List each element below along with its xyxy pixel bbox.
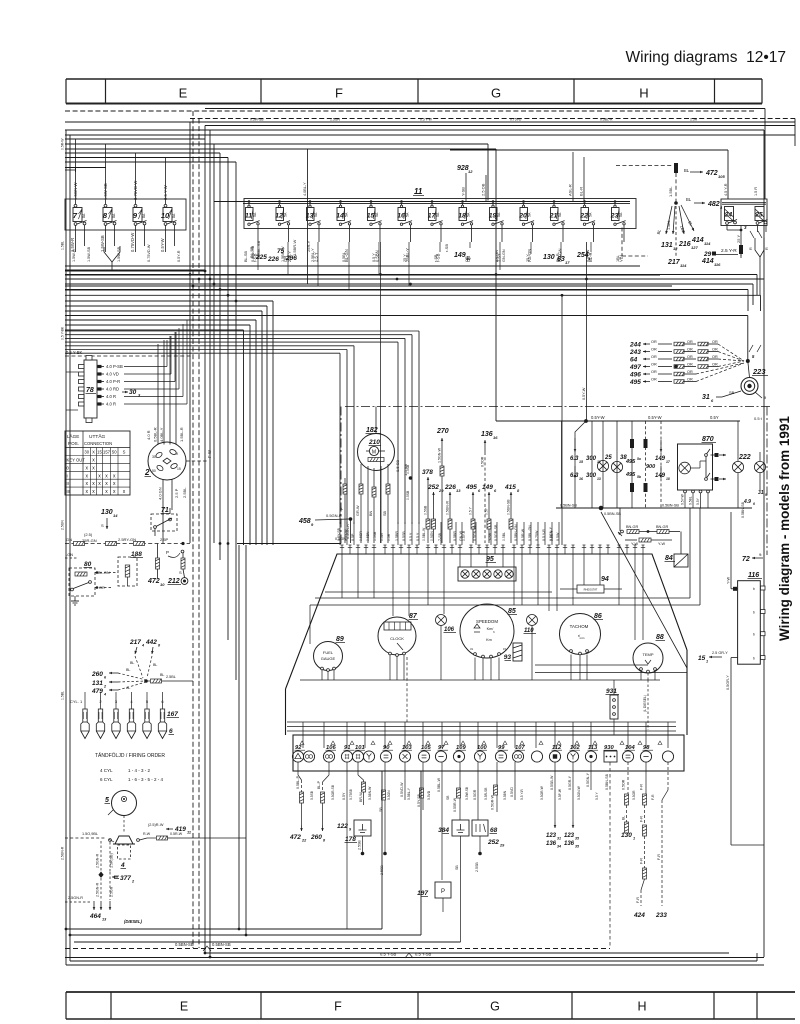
ignition coil 4 cap	[115, 836, 133, 844]
wire vertical x246 long	[245, 545, 247, 935]
svg-text:4.0 R: 4.0 R	[146, 430, 151, 440]
svg-text:1.5BL: 1.5BL	[61, 691, 65, 700]
chain boundary vertical x341	[340, 407, 342, 546]
svg-text:212: 212	[167, 578, 180, 585]
distributor 5	[112, 791, 137, 816]
116 bottom-left pin with 15-1 callout	[731, 657, 738, 659]
svg-text:14: 14	[113, 513, 118, 518]
svg-text:0.5VD-W: 0.5VD-W	[400, 782, 404, 797]
wire mid bus y284	[65, 283, 753, 285]
lamp box 870	[678, 444, 713, 490]
svg-text:5A: 5A	[558, 212, 562, 217]
connector 78 body	[84, 360, 97, 418]
svg-text:F: F	[334, 1000, 342, 1014]
svg-text:88: 88	[656, 634, 664, 641]
wire from 78 pin 6	[124, 403, 187, 405]
svg-text:0.5Y-SB: 0.5Y-SB	[337, 527, 341, 541]
svg-text:SPEEDOM: SPEEDOM	[476, 619, 498, 624]
wire long vertical x214	[213, 144, 215, 543]
svg-text:31: 31	[702, 394, 710, 401]
wire stub left of 78	[66, 371, 78, 373]
wires below 870	[684, 490, 687, 493]
svg-text:15: 15	[698, 655, 706, 662]
svg-text:CYL. 1: CYL. 1	[70, 699, 83, 704]
svg-text:4.0 P-SB: 4.0 P-SB	[106, 364, 123, 369]
clock pin wires	[360, 464, 362, 543]
svg-text:233: 233	[655, 912, 667, 919]
wire below fuse 21	[562, 230, 564, 242]
wire drop x764 right border	[763, 130, 765, 957]
Y-W lower link	[625, 539, 637, 541]
dashed stub -GN	[65, 557, 78, 559]
svg-text:0.5BN-GN: 0.5BN-GN	[514, 524, 518, 541]
svg-text:KEY OUT: KEY OUT	[67, 458, 86, 463]
junction diamond 377	[98, 872, 103, 878]
svg-text:BL: BL	[684, 168, 690, 173]
fuse block frame (fuses 7-10)	[65, 199, 186, 230]
connector pin 104	[622, 745, 635, 762]
svg-text:G: G	[490, 1000, 500, 1014]
svg-text:0.5P: 0.5P	[351, 533, 355, 541]
svg-text:OR: OR	[651, 370, 657, 374]
svg-text:BL-R: BL-R	[556, 253, 560, 262]
svg-text:(2.5)R-W: (2.5)R-W	[148, 823, 164, 827]
wires below 377 junction	[100, 878, 102, 900]
svg-text:188: 188	[131, 551, 142, 558]
svg-text:424: 424	[633, 912, 645, 919]
wire right drops from mid bus	[756, 275, 758, 296]
fuse column 900	[645, 421, 647, 508]
wire from coil line up x193	[192, 680, 194, 682]
tachometer wires	[570, 655, 572, 681]
svg-text:F-R: F-R	[640, 858, 644, 864]
wire mid bus y320	[65, 319, 256, 321]
fuse 21	[549, 200, 565, 230]
svg-text:11: 11	[414, 187, 423, 196]
wire below fuse 19	[501, 230, 503, 242]
wire return y942	[74, 941, 461, 943]
wire bus y130	[65, 129, 764, 131]
wire long dashed vertical x199	[198, 119, 200, 949]
wire below fuse 15	[379, 230, 381, 242]
ignition coil 4 body	[118, 845, 131, 859]
fuse strip frame (fuses 11-23)	[244, 199, 636, 229]
lamp field top bus 0.5Y-W	[556, 420, 740, 422]
svg-text:OR: OR	[651, 355, 657, 359]
wire long vertical x220	[219, 153, 221, 560]
wire y543 cluster feed	[237, 543, 341, 545]
wire drop 109 to 384	[459, 762, 461, 820]
svg-text:0.5BL-GN: 0.5BL-GN	[528, 525, 532, 541]
svg-text:III: III	[67, 489, 71, 494]
svg-text:243: 243	[629, 349, 641, 356]
svg-text:0.5P-W: 0.5P-W	[558, 788, 562, 800]
svg-text:252: 252	[487, 839, 499, 846]
svg-text:0.5W-SB: 0.5W-SB	[465, 786, 469, 800]
wire return y929	[66, 928, 382, 930]
svg-text:GN: GN	[66, 537, 72, 542]
svg-text:AL: AL	[126, 686, 130, 690]
wire drop 106 to 260-8	[328, 762, 330, 775]
svg-text:414: 414	[691, 237, 704, 244]
svg-text:OR: OR	[687, 340, 693, 344]
svg-text:31: 31	[758, 490, 764, 496]
wire below fuse 9	[135, 230, 137, 252]
svg-text:464: 464	[89, 913, 101, 920]
svg-text:270: 270	[436, 428, 449, 435]
svg-text:15: 15	[97, 450, 102, 455]
svg-text:1.5W-SB: 1.5W-SB	[87, 246, 91, 262]
bottom grid band	[66, 992, 795, 1019]
svg-text:2.5GN-R: 2.5GN-R	[68, 896, 83, 900]
svg-text:17: 17	[565, 260, 570, 265]
svg-text:377: 377	[120, 875, 131, 882]
svg-text:5b: 5b	[637, 475, 641, 479]
svg-text:0.5R-W: 0.5R-W	[521, 528, 525, 541]
dashed drop 217	[675, 206, 677, 256]
connector pin blank	[662, 751, 673, 762]
svg-text:0.5W: 0.5W	[380, 532, 384, 541]
svg-text:BN-GR: BN-GR	[656, 525, 668, 529]
wire x676 to junction	[675, 173, 677, 202]
svg-text:12: 12	[468, 169, 473, 174]
wire 0.5Y-W from fuse 22 to lamp bus	[586, 242, 588, 421]
svg-text:BL: BL	[126, 668, 130, 672]
svg-text:2.5BL-Y: 2.5BL-Y	[311, 248, 315, 262]
dashed control bus y543	[65, 543, 190, 545]
svg-text:POS.: POS.	[68, 441, 79, 446]
wire drop 99	[496, 762, 498, 812]
connector pin 109	[453, 745, 466, 762]
svg-text:TÄNDFÖLJD / FIRING ORDER: TÄNDFÖLJD / FIRING ORDER	[95, 752, 165, 759]
chain boundary line y406	[345, 406, 770, 408]
svg-text:0.5 SB: 0.5 SB	[395, 460, 400, 472]
fuse on coil feed	[146, 680, 150, 682]
svg-text:b: b	[753, 657, 755, 661]
svg-text:482: 482	[707, 201, 720, 208]
wire from x496 to lamp bus	[496, 420, 556, 422]
coil terminals	[109, 839, 112, 842]
svg-text:0.5 Y-BK: 0.5 Y-BK	[61, 326, 65, 340]
bus bar inside relay box	[722, 202, 766, 204]
cluster top pins	[340, 545, 344, 554]
wire drop 102 to 123-136 b	[572, 762, 574, 822]
svg-text:1.5SB: 1.5SB	[373, 531, 377, 541]
svg-text:0.5Y: 0.5Y	[696, 497, 700, 505]
svg-text:217: 217	[129, 639, 141, 646]
svg-text:0.5OR: 0.5OR	[632, 790, 636, 800]
wire riser x421	[420, 771, 422, 935]
svg-text:1.5O,9BL: 1.5O,9BL	[82, 832, 98, 836]
svg-text:0.5Y: 0.5Y	[710, 415, 719, 420]
wire below fuse 23	[623, 230, 625, 242]
svg-text:0.5BN: 0.5BN	[366, 531, 370, 541]
cluster lower rail y665	[535, 664, 648, 666]
svg-text:b: b	[753, 633, 755, 637]
fuse 19	[489, 200, 504, 230]
wire below fuse 14	[349, 230, 351, 242]
arrow 30-3 callout	[122, 391, 128, 393]
svg-text:9:: 9:	[759, 552, 762, 557]
wire splice funnel below fuse 8	[104, 246, 120, 262]
lamp column 6.3	[575, 421, 586, 508]
connector 78 pin 1	[79, 365, 85, 369]
svg-text:1.5BL: 1.5BL	[667, 220, 671, 230]
fuse 22	[579, 200, 595, 230]
svg-text:5A: 5A	[345, 212, 349, 217]
svg-text:BL-P: BL-P	[317, 780, 321, 789]
svg-text:5A: 5A	[497, 212, 501, 217]
svg-text:LÄGE: LÄGE	[67, 433, 79, 439]
fuse 9	[133, 199, 147, 230]
svg-text:2.5 OB: 2.5 OB	[481, 183, 486, 196]
svg-text:BR-W: BR-W	[359, 792, 363, 802]
junction dot 223	[746, 359, 750, 363]
svg-text:2.5GN: 2.5GN	[61, 520, 65, 530]
cluster lower rail y722	[287, 721, 676, 723]
svg-text:0.5GN-W: 0.5GN-W	[577, 785, 581, 800]
svg-text:384: 384	[438, 827, 449, 834]
svg-text:497: 497	[629, 364, 641, 371]
svg-text:0.5 Y-W: 0.5 Y-W	[420, 118, 433, 122]
svg-text:P: P	[441, 889, 445, 895]
svg-text:197: 197	[417, 890, 428, 897]
wire corner to right border	[731, 844, 764, 846]
wire return y953	[205, 952, 729, 954]
svg-text:CONNECTION: CONNECTION	[84, 441, 112, 446]
svg-text:4.5 Y-R: 4.5 Y-R	[724, 183, 728, 196]
svg-text:1.5GN-W: 1.5GN-W	[438, 447, 442, 463]
870 switch pins	[705, 454, 708, 457]
svg-text:Y-W: Y-W	[658, 542, 665, 546]
clock resistor bar	[368, 458, 384, 462]
svg-text:0.5BL-R: 0.5BL-R	[600, 118, 613, 122]
svg-text:0.5R: 0.5R	[387, 533, 391, 541]
fuse 12	[275, 200, 290, 230]
wire below fuse 12	[288, 230, 290, 242]
wires below relay box	[726, 226, 728, 231]
instrument cluster outline	[286, 554, 688, 689]
svg-text:BL: BL	[686, 197, 692, 202]
svg-text:0.5 Y: 0.5 Y	[409, 532, 413, 541]
coil down wires dashed	[100, 841, 102, 872]
svg-text:0.5R-W: 0.5R-W	[170, 832, 183, 836]
svg-text:0.5Y-W: 0.5Y-W	[160, 238, 165, 252]
svg-text:72: 72	[742, 556, 750, 563]
connector pin 91	[341, 745, 354, 762]
svg-text:BL: BL	[153, 663, 157, 667]
svg-text:222: 222	[738, 454, 751, 461]
wire drop 105	[422, 762, 424, 810]
svg-text:114: 114	[680, 263, 687, 268]
svg-text:1.5BR-W: 1.5BR-W	[292, 240, 297, 256]
connector row top tick marks	[300, 741, 304, 744]
svg-text:0.5BN: 0.5BN	[503, 790, 507, 800]
wire drop x562 to cluster	[561, 295, 563, 545]
svg-text:2.5 P: 2.5 P	[174, 488, 179, 498]
svg-text:136: 136	[564, 841, 575, 847]
junction dot on 497 wire	[674, 365, 678, 369]
svg-text:0.5Y: 0.5Y	[342, 792, 346, 800]
dashed drop below clock	[406, 657, 408, 722]
wire bus y122	[65, 121, 795, 123]
wire from 78 pin 1	[124, 366, 167, 368]
svg-text:0.5Y-W: 0.5Y-W	[681, 493, 685, 505]
svg-text:BL: BL	[622, 816, 626, 820]
svg-text:30: 30	[152, 455, 156, 459]
svg-text:X: X	[92, 450, 95, 455]
wire drop 98 fuse chain to 424	[645, 762, 647, 794]
svg-text:OR: OR	[651, 340, 657, 344]
wire feed above fuse 9	[135, 153, 137, 199]
cluster lower rail y726	[287, 726, 676, 728]
svg-text:0.5OR: 0.5OR	[481, 456, 485, 467]
svg-text:217: 217	[667, 259, 681, 266]
svg-text:M: M	[372, 450, 376, 456]
svg-text:5: 5	[105, 797, 109, 804]
svg-text:5A: 5A	[436, 212, 440, 217]
svg-text:OR: OR	[687, 348, 693, 352]
wire below fuse 11	[257, 230, 259, 242]
svg-text:5A: 5A	[589, 212, 593, 217]
lamp 110 in cluster	[527, 615, 538, 626]
116 pin	[761, 586, 766, 590]
wire bus y139	[65, 138, 205, 140]
svg-text:0.5GR: 0.5GR	[359, 531, 363, 541]
wire labels above fuses 21-22	[572, 152, 574, 201]
svg-text:9: 9	[765, 493, 767, 497]
svg-text:5A: 5A	[406, 212, 410, 217]
svg-text:2.5BL: 2.5BL	[166, 675, 176, 679]
svg-text:414: 414	[701, 258, 714, 265]
cluster internal rail y605	[310, 604, 700, 606]
wire riser x757 bottom	[756, 953, 758, 961]
BN-GR link resistors	[619, 508, 621, 531]
coil feed junction	[144, 679, 148, 683]
wire mid bus y315 to connector 223	[65, 315, 748, 317]
svg-text:5A: 5A	[467, 212, 471, 217]
svg-text:1.5BL: 1.5BL	[61, 241, 65, 250]
svg-text:300: 300	[586, 456, 597, 462]
wire vertical x239 long	[238, 545, 240, 929]
top grid band	[66, 79, 762, 104]
svg-text:2.5BL: 2.5BL	[182, 487, 187, 498]
svg-text:5a: 5a	[637, 457, 641, 461]
svg-text:29: 29	[703, 251, 712, 258]
svg-text:93: 93	[504, 654, 512, 661]
svg-text:BL: BL	[130, 661, 134, 665]
wire return y935	[70, 934, 421, 936]
svg-text:105: 105	[718, 174, 725, 179]
spark plug 2	[96, 692, 104, 739]
wire long vertical x66 left border	[65, 130, 67, 965]
svg-text:0.5Y-W: 0.5Y-W	[582, 387, 586, 400]
junction dot big on bottom bus	[599, 506, 604, 511]
fuse 13	[306, 200, 321, 230]
cluster internal rail y598	[315, 597, 690, 599]
wire below fuse 7	[75, 230, 77, 252]
junction terminals at x183	[181, 542, 184, 545]
svg-text:931: 931	[606, 688, 617, 695]
svg-text:13: 13	[456, 488, 461, 493]
svg-text:1: 1	[633, 837, 635, 841]
svg-text:0.5W-SB: 0.5W-SB	[250, 118, 264, 122]
connector pin 106	[323, 745, 336, 762]
svg-text:2: 2	[144, 468, 150, 477]
svg-text:300: 300	[586, 473, 597, 479]
wire staircase verticals middle	[272, 301, 274, 545]
wire 4.0BL-Y vertical	[307, 149, 309, 284]
wire below fuse 17	[440, 230, 442, 242]
relay fuse 25	[754, 207, 767, 225]
svg-text:30: 30	[84, 450, 89, 455]
svg-text:244: 244	[629, 342, 641, 349]
clock motor symbol	[369, 446, 378, 455]
svg-text:OR: OR	[712, 340, 718, 344]
connector pin 101	[352, 745, 365, 762]
svg-text:0.5GR-SB: 0.5GR-SB	[331, 784, 335, 800]
svg-text:0.5Y-SB: 0.5Y-SB	[417, 793, 421, 807]
svg-text:0.5R-SB: 0.5R-SB	[484, 787, 488, 800]
cluster right side wall	[686, 650, 688, 735]
svg-text:OR: OR	[687, 370, 693, 374]
svg-text:(2.5): (2.5)	[84, 532, 93, 537]
svg-text:2.5SB: 2.5SB	[358, 840, 362, 850]
svg-text:114: 114	[704, 241, 711, 246]
wire below fuse 13	[318, 230, 320, 242]
svg-text:OR: OR	[712, 363, 718, 367]
116 left pin Y-W	[731, 588, 738, 590]
svg-text:0.75VD-W: 0.75VD-W	[147, 244, 151, 262]
svg-text:0.5BN-SB: 0.5BN-SB	[662, 504, 679, 508]
svg-text:G: G	[491, 86, 501, 101]
svg-text:458: 458	[298, 518, 311, 525]
junction dots on buses	[204, 270, 207, 273]
wire drop 90 long to dot	[384, 762, 386, 852]
svg-text:1.5W-SB: 1.5W-SB	[117, 246, 121, 262]
svg-text:0.5Y-R: 0.5Y-R	[462, 530, 466, 541]
spark plug 3	[112, 692, 120, 739]
svg-text:8A: 8A	[172, 213, 176, 218]
wire bus y157	[65, 157, 228, 159]
svg-text:1.5GN: 1.5GN	[330, 118, 340, 122]
svg-text:OR: OR	[712, 348, 718, 352]
wire mid bus y279	[65, 278, 764, 280]
wire feed above fuse 10	[165, 158, 167, 200]
chain boundary drop right	[766, 407, 768, 556]
svg-text:6: 6	[169, 728, 173, 735]
svg-text:Y-W: Y-W	[727, 577, 731, 584]
wire drops from rails to connector row	[302, 722, 304, 748]
wire long dashed vertical x193	[192, 111, 194, 948]
wire bus y144	[65, 143, 488, 145]
svg-text:149: 149	[482, 484, 493, 491]
svg-text:0.5GN: 0.5GN	[430, 531, 434, 541]
connector pin 112	[549, 745, 562, 762]
wire bus y162	[65, 161, 236, 163]
116 pin	[761, 656, 766, 660]
svg-text:223: 223	[752, 367, 766, 376]
svg-text:130: 130	[543, 254, 555, 261]
switch 71 dashed box	[151, 514, 177, 531]
svg-text:260: 260	[310, 834, 322, 841]
svg-text:GAUGE: GAUGE	[321, 656, 336, 661]
wire from 78 pin 5	[124, 396, 183, 398]
svg-text:1 - 4 - 3 - 2: 1 - 4 - 3 - 2	[128, 768, 151, 773]
fuse strip bus	[243, 201, 630, 203]
svg-text:0.5GN-W: 0.5GN-W	[473, 525, 477, 541]
svg-text:E: E	[180, 1000, 188, 1014]
